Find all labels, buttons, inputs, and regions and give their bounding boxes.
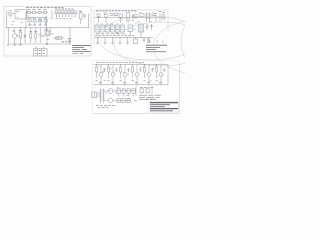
sheet B lower bus xyxy=(95,37,154,39)
sheet C speaker terminals xyxy=(92,92,100,98)
sheet A top labels xyxy=(26,7,64,9)
sheet C push-pull transistors xyxy=(105,89,117,103)
sheet C title block xyxy=(146,99,179,112)
junction dots xyxy=(8,12,162,85)
sheet A tuning coil xyxy=(54,9,78,18)
sheet C bias resistor network xyxy=(116,86,136,103)
sheet C border xyxy=(93,62,180,114)
sheet B top labels xyxy=(96,10,137,12)
sheet A right RC cluster xyxy=(79,11,86,25)
sheet A right bus xyxy=(88,14,90,29)
sheet B border top xyxy=(94,9,168,11)
sheet B value labels xyxy=(97,13,154,33)
sheet B input stage row xyxy=(95,13,167,23)
sheet A wires lower xyxy=(10,28,70,44)
sheet A vertical resistors xyxy=(29,28,41,43)
sheet A row2 stages xyxy=(27,10,52,34)
sheet A box component xyxy=(44,28,49,45)
pencil ellipse 2 xyxy=(114,22,210,66)
sheet C lower bus xyxy=(94,84,169,86)
sheet C amplifier stages xyxy=(96,65,166,85)
sheet C top labels xyxy=(96,62,144,64)
sheet B crystal xyxy=(128,25,133,36)
sheet A value labels xyxy=(11,17,56,39)
sheet B lower labels xyxy=(95,34,134,36)
sheet B border left xyxy=(93,10,95,44)
sheet B ground drops xyxy=(96,38,129,44)
sheet B title block xyxy=(146,40,167,52)
sheet A mid bus xyxy=(6,27,90,29)
sheet C right vwire xyxy=(167,65,169,85)
sheet A meter + resistor branch xyxy=(7,28,22,45)
sheet A output jack xyxy=(53,36,71,42)
sheet A border xyxy=(4,7,91,57)
sheet B border right xyxy=(167,10,169,32)
microphone LS1 xyxy=(8,12,12,16)
sheet A diode branch xyxy=(24,28,26,43)
sheet C bottom labels xyxy=(96,106,115,108)
pencil ellipse 3 xyxy=(153,19,257,75)
sheet B bottom components xyxy=(134,38,150,44)
sheet A row1 resistors xyxy=(26,10,48,28)
sheet C output transformer xyxy=(99,89,104,104)
sheet C notes xyxy=(139,95,161,99)
sheet A battery box xyxy=(34,46,48,56)
sheet A title block xyxy=(68,39,91,54)
sheet A left bus xyxy=(6,10,8,28)
pencil ellipse 4 xyxy=(181,8,249,76)
sheet B selector switch bank xyxy=(95,23,125,34)
sheet C right components xyxy=(140,86,154,94)
sheet C value labels xyxy=(99,66,164,101)
pencil ellipse 1 xyxy=(98,16,202,60)
sheet B osc transformer xyxy=(134,12,165,22)
sheet C top bus xyxy=(94,64,169,66)
sheet B IF transformer xyxy=(136,22,153,38)
input pickup box xyxy=(15,10,27,20)
